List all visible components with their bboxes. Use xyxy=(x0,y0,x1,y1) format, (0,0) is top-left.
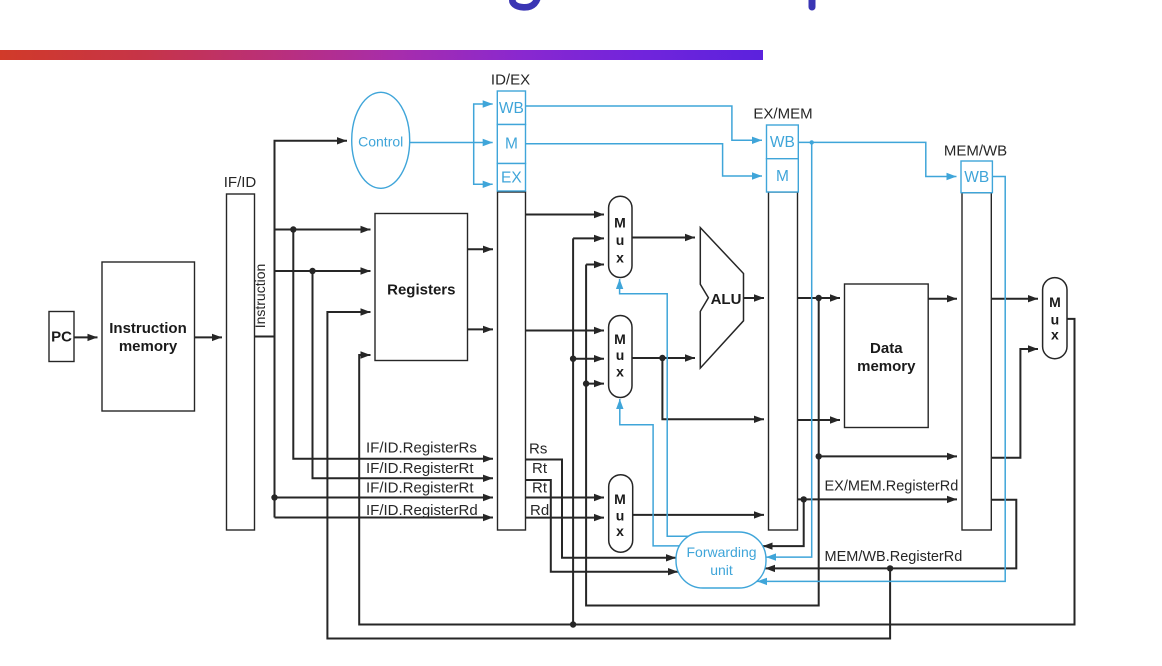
svg-text:x: x xyxy=(1051,327,1059,343)
svg-text:Rd: Rd xyxy=(530,502,549,519)
svg-text:u: u xyxy=(616,232,625,248)
svg-text:Rs: Rs xyxy=(529,441,547,458)
svg-text:IF/ID.RegisterRs: IF/ID.RegisterRs xyxy=(366,440,477,457)
svg-text:Forwarding: Forwarding xyxy=(686,544,756,560)
svg-text:memory: memory xyxy=(119,338,178,355)
svg-text:Rt: Rt xyxy=(532,460,548,477)
svg-text:IF/ID.RegisterRd: IF/ID.RegisterRd xyxy=(366,502,478,519)
svg-text:IF/ID.RegisterRt: IF/ID.RegisterRt xyxy=(366,460,474,477)
svg-text:Data: Data xyxy=(870,340,903,357)
svg-text:IF/ID.RegisterRt: IF/ID.RegisterRt xyxy=(366,480,474,497)
svg-text:Rt: Rt xyxy=(532,480,548,497)
svg-text:PC: PC xyxy=(51,329,72,346)
svg-text:WB: WB xyxy=(770,134,795,151)
svg-text:M: M xyxy=(614,214,626,230)
svg-text:MEM/WB: MEM/WB xyxy=(944,143,1007,160)
svg-text:WB: WB xyxy=(964,169,989,186)
svg-text:memory: memory xyxy=(857,358,916,375)
svg-text:M: M xyxy=(505,136,518,153)
svg-text:unit: unit xyxy=(710,562,733,578)
svg-text:Instruction: Instruction xyxy=(109,320,187,337)
svg-text:Instruction: Instruction xyxy=(252,264,268,329)
svg-text:IF/ID: IF/ID xyxy=(224,174,257,191)
svg-text:EX: EX xyxy=(501,170,522,187)
svg-text:WB: WB xyxy=(499,100,524,117)
svg-text:u: u xyxy=(616,508,625,524)
svg-text:Control: Control xyxy=(358,134,403,150)
svg-text:M: M xyxy=(614,331,626,347)
svg-text:u: u xyxy=(1051,312,1060,328)
svg-text:x: x xyxy=(616,523,624,539)
svg-text:MEM/WB.RegisterRd: MEM/WB.RegisterRd xyxy=(825,549,963,565)
svg-text:x: x xyxy=(616,250,624,266)
svg-text:M: M xyxy=(776,168,789,185)
svg-text:u: u xyxy=(616,347,625,363)
svg-text:EX/MEM: EX/MEM xyxy=(753,106,812,123)
svg-text:EX/MEM.RegisterRd: EX/MEM.RegisterRd xyxy=(825,479,959,495)
svg-text:M: M xyxy=(1049,294,1061,310)
svg-text:M: M xyxy=(614,491,626,507)
svg-text:x: x xyxy=(616,364,624,380)
svg-text:ID/EX: ID/EX xyxy=(491,72,530,89)
svg-text:Registers: Registers xyxy=(387,282,455,299)
svg-text:ALU: ALU xyxy=(711,291,742,308)
